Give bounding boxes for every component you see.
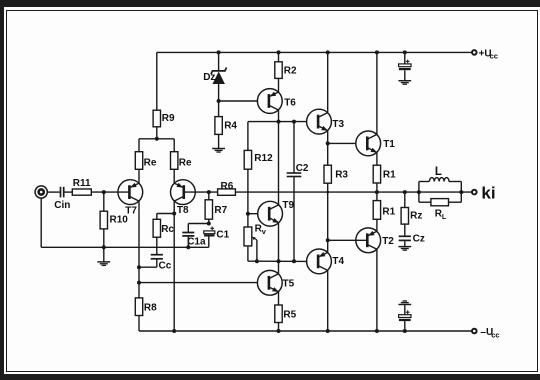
wire R1 to T2 [376,219,378,232]
node Dz R4 T6 [217,99,221,103]
svg-text:C2: C2 [296,163,309,174]
wire R3 down [327,183,329,253]
capacitor C1a [182,233,194,236]
resistor Re left [135,152,142,170]
wire R5 to rail [278,323,280,332]
wire to Rz [404,192,406,207]
node rail T1 [375,50,379,54]
wire R2 to T6 [278,78,280,92]
node rail T3 [326,50,330,54]
transistor T4 [307,249,332,274]
wire to R3 [327,143,329,165]
node T2 base [326,238,330,242]
resistor Rv [244,227,252,246]
capacitor Cc [151,255,163,259]
svg-text:Cc: Cc [159,260,172,271]
wire jack shield down [40,198,42,247]
svg-text:R1: R1 [383,169,396,180]
wiper Rv [252,237,257,262]
node T9 base [246,212,250,216]
node rail cap bottom [403,329,407,333]
node wiper [255,259,259,263]
svg-text:L: L [442,214,447,221]
terminal ki output [472,190,477,195]
transistor T9 [258,201,283,226]
svg-text:Rz: Rz [410,210,422,221]
wire +Ucc rail [157,51,472,53]
svg-text:Re: Re [144,157,157,168]
capacitor decoupling top [399,60,411,71]
ground decoupling top [398,81,411,85]
wire Rc to Cc [156,237,158,254]
resistor R12 [244,150,251,169]
svg-text:T6: T6 [284,98,296,109]
transistor T7 [118,180,143,205]
wire T2 emitter down [376,249,378,331]
svg-text:Cin: Cin [54,200,70,211]
capacitor C1 [204,227,215,237]
resistor R9 [153,110,160,127]
node T9 T5 [277,259,281,263]
node Rc tap [172,212,176,216]
wire T4 down [327,270,329,331]
wire T2 base [328,239,368,241]
wire bias bus [248,260,307,262]
transistor T5 [257,270,282,295]
svg-text:R8: R8 [144,303,157,314]
wire T9 to T5 [278,222,280,274]
svg-text:R3: R3 [335,169,348,180]
wire rail to R9 [156,52,158,110]
terminal -Ucc [472,329,477,334]
wire emitter node [139,138,174,140]
resistor Re right [171,152,178,170]
wire ground run [41,246,209,248]
svg-text:Rc: Rc [161,224,174,235]
wire L right vert [460,182,462,203]
node T8 base R6 R7 [207,190,211,194]
svg-text:T3: T3 [332,119,344,130]
node ground junction [102,245,106,249]
wire T9 base [248,213,258,215]
wire cap to ground [404,70,406,80]
svg-text:R1: R1 [382,207,395,218]
transistor T3 [307,109,332,134]
wire to Re right [173,139,175,152]
svg-text:C1: C1 [216,229,229,240]
svg-text:R11: R11 [73,178,91,189]
wire Cz to ground [404,241,406,246]
wire to C1a [187,224,189,232]
wire T6 to T9 [278,110,280,205]
wire Cin to R11 [65,191,73,193]
svg-text:Cz: Cz [413,233,425,244]
wire cap top lead [404,52,406,64]
label -Ucc [480,327,499,339]
transistor T2 [356,228,381,253]
wire to T1 base [328,142,356,144]
node rail T8 [172,329,176,333]
wire rail to Dz [218,52,220,70]
node Rz tap [403,190,407,194]
resistor R7 [205,200,212,219]
label +Ucc [479,48,498,60]
svg-text:T9: T9 [282,200,294,211]
wire bus to R12 [247,122,249,151]
label RL [435,209,447,221]
capacitor Cin [61,187,64,198]
outer dark band top [0,0,540,7]
wire node to R10 [103,192,105,211]
wire RL bottom right [449,201,462,203]
svg-text:R12: R12 [254,153,273,164]
resistor R11 [72,189,91,195]
wire Cc down [156,260,158,268]
wire T1 emitter [376,152,378,165]
wire C2 top lead [293,122,295,173]
wire C1 branch [188,223,209,225]
svg-text:R2: R2 [284,65,297,76]
svg-text:ki: ki [481,183,495,202]
node R3 feedback [326,191,329,194]
node R7 C1 [207,222,211,226]
resistor R4 [215,117,222,135]
ground Cz [398,247,411,251]
node rail R5 [277,329,281,333]
ground decoupling bottom [398,301,411,305]
wire R8 to rail [138,316,140,332]
svg-text:T4: T4 [332,256,344,267]
node L right [459,190,463,194]
node rail cap top [403,50,407,54]
svg-text:Re: Re [179,157,192,168]
svg-text:T1: T1 [383,139,395,150]
label Rv [255,223,267,236]
wire L top right [449,181,461,183]
wire cap bottom lead [404,321,406,331]
outer dark band bottom [0,374,540,380]
node output [375,190,379,194]
zener diode Dz [211,68,227,102]
node T5 base tap [137,281,141,285]
node C1a ground [186,245,190,249]
wire T3 collector [327,52,329,113]
wire T7 collector [138,201,140,298]
svg-text:R7: R7 [214,205,227,216]
svg-text:v: v [262,227,267,236]
transistor T1 [356,131,381,156]
wire to ground symbol [103,247,105,261]
node T6 leg [277,120,281,124]
svg-text:C1a: C1a [187,237,206,248]
svg-text:T8: T8 [177,205,189,216]
wire L left vert [418,182,420,203]
svg-text:T7: T7 [125,206,137,217]
svg-text:cc: cc [491,330,499,339]
wire R11 to T7 base [91,191,129,193]
node L left [417,190,421,194]
svg-text:R9: R9 [162,113,175,124]
node rail T2 [375,329,379,333]
resistor R3 [324,165,331,183]
wire C1 down [208,237,210,248]
wire T8 base [184,191,218,193]
wire to Re left [138,139,140,152]
wire T6 collector bus [248,121,307,123]
node C2 top [292,120,296,124]
resistor R6 [218,189,236,195]
resistor RL [431,199,449,206]
svg-text:T5: T5 [283,278,295,289]
node input junction [102,190,106,194]
capacitor Cz [399,236,411,240]
node rail R2 [277,50,281,54]
node Cc tap [137,265,141,269]
resistor Rz [401,208,408,225]
inductor L [429,178,449,182]
ground R4 [212,149,225,153]
svg-text:cc: cc [490,52,498,61]
wire feedback [235,191,471,193]
input jack [35,186,47,198]
wire R10 to ground rail [103,229,105,247]
wire RL bottom left [419,201,431,203]
wire T5 to R5 [278,292,280,306]
wire T5 base [139,282,257,284]
wire T1 collector [376,52,378,134]
wire R12 to Rv [247,169,249,227]
wire C2 bottom lead [293,177,295,261]
wire rail to R2 [278,52,280,61]
resistor R1 top [373,165,380,183]
capacitor decoupling bottom [399,310,411,321]
wire T3 emitter [327,130,329,143]
svg-text:R6: R6 [221,181,234,192]
ground input [97,262,110,266]
wire -Ucc rail [139,330,472,332]
node T3 emitter [326,141,330,145]
wire T8 collector [173,201,175,331]
resistor R1 bottom [373,201,380,220]
transistor T6 [257,89,282,114]
resistor R8 [135,298,142,316]
wire Dz to T6 base [219,100,258,102]
wire R7 lead [208,192,210,200]
svg-text:R4: R4 [224,121,237,132]
resistor R5 [275,305,282,323]
wire node to R4 [218,101,220,117]
resistor R2 [275,62,282,79]
wire Re to T8 [173,169,175,184]
node C2 bottom [292,259,296,263]
wire Cc to T7 line [139,266,157,268]
svg-text:L: L [435,166,442,178]
wire R7 to C1 [208,219,210,223]
wire to Rc [156,214,158,220]
resistor Rc [153,219,160,237]
wire Re to T7 [138,169,140,184]
svg-text:T2: T2 [382,236,394,247]
terminal +Ucc [472,50,477,55]
wire R9 to node [156,127,158,139]
node rail Dz [217,50,221,54]
wire jack to Cin [47,191,59,193]
wire L top left [419,181,430,183]
outer dark band left [0,0,4,380]
transistor T8 [171,180,196,205]
wire Rv to bias bus [247,246,249,261]
node rail T4 [326,329,330,333]
wire R4 to ground [218,134,220,148]
svg-text:Dz: Dz [203,72,215,83]
resistor R10 [100,211,107,229]
wire Rz to Cz [404,224,406,236]
wire R1 to output [376,183,378,201]
capacitor C2 [287,173,302,177]
wire C1a down [187,237,189,248]
svg-text:R5: R5 [283,310,296,321]
wire Rc top [157,213,174,215]
wire cap to ground inv [404,305,406,315]
node diff emitters [155,137,159,141]
